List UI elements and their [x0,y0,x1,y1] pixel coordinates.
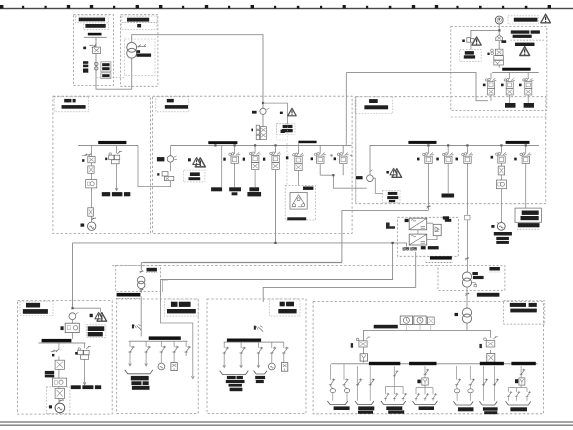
E gen outgoing wire [373,178,382,193]
J feeder 1 [129,342,132,366]
transformer M [462,272,471,281]
panel box J (DC/battery board) [117,299,199,414]
busbar G line [39,342,86,345]
D f2 label bars [229,187,241,191]
relay box A right 1 [101,62,111,72]
G consumer sub-box [46,387,70,414]
top-right label frame [508,16,539,24]
earthing switch boxes [467,38,471,43]
D f0 meter circle [167,156,173,162]
converter top label [443,216,449,219]
meter box 2 [414,316,426,325]
L group 6 bars [483,407,498,410]
E motor label square [491,225,494,228]
trafo M aux pin [472,283,476,285]
L group 4 bar [419,406,434,410]
gen breaker label square [487,53,489,55]
E gen label bar [356,176,363,179]
box D second border line [355,97,357,204]
G motor [55,403,65,413]
box J title bar [167,309,196,313]
transformer T1 [127,42,137,52]
generator drop wire [471,24,500,68]
E f1 switch tick [427,205,431,208]
F feeder 3 [527,73,529,103]
K feeder 5 [283,343,285,363]
box F long feed wire [346,72,488,100]
F feeder 2 [509,73,511,103]
J feed switch [137,326,142,330]
E feeder 2 [447,146,449,193]
box D inner divider [286,143,288,186]
E f5 lower bar [518,223,540,227]
trafo H lower wire [140,289,142,337]
box A subtitle bar [85,24,105,28]
G warning triangle [97,313,107,322]
L group 3 bars [386,406,402,410]
mid cluster 1 [314,153,325,164]
G relay label box [87,325,106,338]
battery pads [403,247,417,251]
trafo M lower switch tick [465,293,469,296]
surge label bar [501,40,506,43]
warning triangle T3 [472,37,481,45]
box A subtitle frame [83,23,108,30]
L group 7 label square [515,379,518,383]
J feeder 3 [160,342,162,364]
star points [330,154,333,157]
panel box M (transformer bay) [438,266,505,291]
C f1 breaker [88,157,95,163]
G f1 breaker [55,360,64,369]
E f2 label bar [442,194,455,198]
L right incomer flag [479,344,482,348]
E feeder 1 (to trafo H) [427,146,429,211]
F feeder 2 label [505,103,516,108]
L group 4 box [422,378,428,385]
meter box 3 [427,317,434,325]
K feeder 4 [271,343,273,364]
C f1 label square [82,159,84,162]
D triangle label [188,158,191,161]
top-right label bar [514,18,538,22]
box B title frame [122,16,157,23]
rectifier unit 1 [409,218,427,230]
busbar G [42,339,72,342]
panel box K (LV board 1) [207,299,306,414]
box J title frame [164,299,198,316]
L group 1 tray [327,401,347,405]
busbar A line [84,36,107,39]
box B title bar [127,18,149,22]
L group 4 tray [412,401,437,405]
G f1 disconnect arrow [51,350,59,352]
box E title block [369,99,378,103]
G motor label square [49,405,52,408]
L group 6 tray [479,401,497,405]
box F labels right column [511,30,540,46]
F feeder 3 label [524,103,534,108]
box N title bar [510,309,537,313]
G feed breaker [71,320,73,339]
converter title square [405,219,409,222]
J battery bars [131,376,150,390]
trafo M upper switch tick [465,257,469,260]
busbar H dashed underline [116,297,140,299]
tie label left [252,111,257,114]
box G title frame [20,302,53,316]
C f2 arrow end [115,188,118,191]
L group 4 feed [416,366,433,401]
tie relay frame [277,123,288,140]
busbar F [502,68,530,71]
box B small label [137,24,141,27]
L group 7 bar [510,407,527,411]
G feed meter circle [69,313,76,320]
L group 7 box [519,378,525,385]
black flag symbol left of converter [386,223,395,229]
busbar L segment 2 [409,362,436,365]
mid cluster 2 label [334,157,336,160]
T1 label bar [137,54,152,57]
G feeder 2 [84,343,86,384]
tie wire bus D to LV network [73,210,429,307]
L group 4 label square [417,380,420,384]
tie breaker stack [256,125,266,139]
wire to gen labels [470,42,472,49]
disconnect arrow at T1 [137,44,146,47]
E relay label box [383,190,400,203]
warning triangle T1 [541,14,551,23]
wire B to D (HV tie) [132,35,263,140]
C f2 label bars [102,192,110,196]
C f1 fuse box [88,166,94,173]
G feed label square [61,326,64,330]
C f1 lower breaker [88,208,94,216]
D f0 breaker cluster [162,172,168,176]
panel box L (main LV switchboard) [313,302,543,414]
busbar E segment 1 [408,141,436,144]
warning triangle near wire [288,108,296,116]
J feeder 5 [185,342,187,356]
box D title blocks [167,99,174,103]
J spare feeder loop [161,296,193,377]
label bars A left [83,61,88,72]
G f1 label square [52,354,54,357]
trafo M labels [472,272,478,275]
L group 5 bar [458,407,474,411]
C motor label [81,224,85,227]
busbar L segment 3 [480,362,504,365]
K feeder 2 [240,343,243,368]
K battery bars 2 [255,376,265,379]
J feeder 2 [145,342,148,366]
box B subtitle frame [122,23,157,30]
D right feeder cluster [297,143,299,185]
busbar J line [129,340,188,343]
G feeder 1 [58,343,60,403]
trafo H lower switch tick [139,289,143,292]
G f2 transformer cluster [78,350,83,354]
box K title bar [278,309,296,313]
C feeder 1 wire [91,146,93,222]
K battery tray 1 [220,371,249,375]
E motor circle [497,222,505,230]
L left incomer cluster [359,341,367,347]
busbar A [88,33,102,36]
F feeder 1 [490,73,492,101]
busbar L segment 4 [511,362,535,365]
busbar E line [370,144,539,147]
L right incomer cluster [490,350,492,354]
E generator circle drop [369,145,371,174]
L group 7 feed [508,366,527,401]
box D title frame [156,97,189,112]
D right label square [286,156,289,159]
tie stack label square [251,129,253,132]
D feeder 3 [254,146,256,187]
box E title frame [355,97,393,114]
M2 output wire to box L [364,323,491,340]
box C title frame [54,97,88,112]
transformer H [138,276,145,283]
busbar L line [331,362,538,365]
E f5 outgoing label box [515,208,541,222]
diode box [433,224,441,235]
L group 5 drops [457,366,471,401]
disconnect switch A [89,44,96,48]
C f1 metering box [86,180,97,188]
D feeder 0 wire [170,146,172,172]
box K title blocks [280,302,285,307]
panel box G (emergency switchboard) [18,301,113,415]
rectifier unit 2 [409,234,427,245]
trafo H switch tick [140,270,144,273]
box F bottom second dash [451,116,547,118]
relay label box [276,124,295,135]
converter box (dashed) [398,217,459,256]
box C title bar [62,105,86,109]
J battery tray [125,370,153,374]
small switch box on feeder wire [465,215,470,220]
K battery tray 2 [254,371,267,374]
box B inner frame [124,39,155,76]
C f2 transformer cluster [109,155,114,159]
panel box B (transformer cubicle) [121,15,158,87]
frame ruler line [0,8,573,9]
generator label frame [460,50,481,62]
DC busbar [430,256,452,259]
G f2 label bars [71,385,81,389]
panel box C (MV switchboard 1) [53,96,151,233]
DC busbar dashed underline [426,262,453,264]
E feeder 5 (outgoing box) [525,146,527,208]
K feed switch flag [254,326,256,330]
gen transformer boxes [494,56,504,60]
G triangle label square [90,314,93,317]
box M title underline [489,271,500,273]
motor group label bar [287,217,306,220]
E triangle label square [386,171,389,174]
panel box E (MV switchboard 3) [356,97,546,204]
T1 label small [137,50,141,53]
busbar K line [224,341,284,344]
L group 1 bar [334,406,350,410]
wire A feeder [96,38,132,89]
box H title underline [146,272,157,274]
junction node B [262,102,264,104]
J feed switch flag [132,324,134,328]
D relay label box [184,170,205,182]
mid cluster 2 [337,153,348,164]
busbar E nodes [427,144,429,146]
warning triangle T2 [520,47,530,56]
F feeder label squares [483,84,486,87]
warning triangle D [195,158,205,167]
surge diverter symbol [496,35,503,41]
busbar J [149,336,181,340]
G f1 label bars [45,371,54,374]
busbar C [98,141,126,144]
converter label bar [445,219,452,222]
L group 7 tray [506,401,531,405]
E feeder 4 (motor) [500,146,502,223]
converter link wires [418,223,437,239]
D f4 label square [263,158,265,161]
D right bus segment [298,141,316,144]
label square A1 [83,47,86,50]
branch wire to relay labels [263,103,287,124]
L group 2 drops [358,366,371,401]
mid feeder wire from F [320,73,366,188]
box D title bar [165,105,188,109]
K feed switch [258,327,263,332]
box H title bar [147,268,157,272]
box N title blocks [510,303,526,307]
label square F [462,40,465,43]
E motor label bars [494,232,512,236]
junction node F [498,29,500,31]
box M title bar [489,267,500,271]
busbar D nodes [214,144,216,146]
busbar D [208,141,237,144]
motor group title [303,187,313,190]
frame ruler ticks [0,5,551,9]
busbar K [227,339,261,342]
motor group box frame [285,186,315,220]
panel box A (incomer cubicle) [74,15,114,86]
G f1 metering box [53,378,67,387]
box G title bar [23,309,48,314]
converter label squares [421,246,426,249]
L left incomer lower box [363,347,365,362]
L group 5 tray [453,401,473,405]
box K title frame [269,299,300,316]
K feeder 1 [223,343,226,368]
dashed link A-B [96,76,124,78]
L group 2 tray [355,401,374,405]
wire C right riser [138,145,171,186]
warning triangle E [392,169,402,178]
synch bus label [374,325,398,329]
E f4 metering box [496,180,506,189]
K feeder 3 [257,343,260,368]
G f2 label square [75,352,77,355]
busbar H [117,293,141,297]
dashed label row [510,39,544,41]
circuit breaker A [93,47,101,53]
M2 label square [455,313,459,316]
D feeder 1 wire [221,146,223,187]
busbar D line [171,144,352,147]
D f0 label bar [157,157,165,161]
meter circle on tie wire [260,108,266,114]
motor group symbol box [290,192,307,209]
D f3 label bars [249,187,259,191]
label square [280,112,283,114]
K battery bars 1 [226,376,245,391]
C f2 label square [105,158,107,161]
busbar F line [492,71,539,74]
G feed branch [73,308,101,312]
CT circles A [95,62,98,65]
D f1 label bar [211,187,222,191]
L group 3 tray [381,401,406,405]
C f1 disconnect arrow [82,153,91,156]
box A title bar [79,18,105,22]
bottom border double rule [0,421,573,426]
box C title blocks [64,99,71,103]
mid cluster 1 label [311,157,313,160]
trafo M lower wire [466,287,468,308]
L right incomer lower box [487,353,495,362]
box G title small bar [26,303,40,308]
G f1 lower breaker [55,388,64,398]
M lower label bar [477,293,500,297]
meter stubs [406,325,430,331]
C motor M1 [88,222,96,230]
box E title bar [364,105,388,109]
D f3 label square [243,158,245,161]
panel box F (generator switchboard) [451,27,547,111]
busbar L segment 1 [369,362,400,365]
L group 2 bars [358,406,374,410]
D feeder 2 [234,146,236,187]
panel box D (MV switchboard 2) [153,96,353,233]
L group 6 drops [483,366,494,401]
G f1 switch tick [59,399,64,401]
D f0 label square [157,173,159,175]
busbar C line [78,144,138,147]
J feeder 4 [173,342,175,363]
meter box 1 [400,316,412,325]
relay box A right 2 [101,73,111,79]
D feeder 4 (tie to LV) [275,146,277,243]
solid frame right of H [162,280,168,292]
box A title frame [75,16,108,23]
dashed boundary line mid [112,264,438,266]
L group 3 feed [386,366,404,401]
E feeder 3 (to trafo M) [466,146,468,272]
clock meter [495,16,503,24]
G f2 arrow end [83,382,86,385]
L left incomer flag [351,343,353,348]
transformer M2 [462,308,471,317]
E f4 fuse box [498,166,504,175]
panel box N (title block right) [504,301,545,324]
C feeder 2 wire [116,146,118,190]
gen breaker cluster [491,49,494,52]
